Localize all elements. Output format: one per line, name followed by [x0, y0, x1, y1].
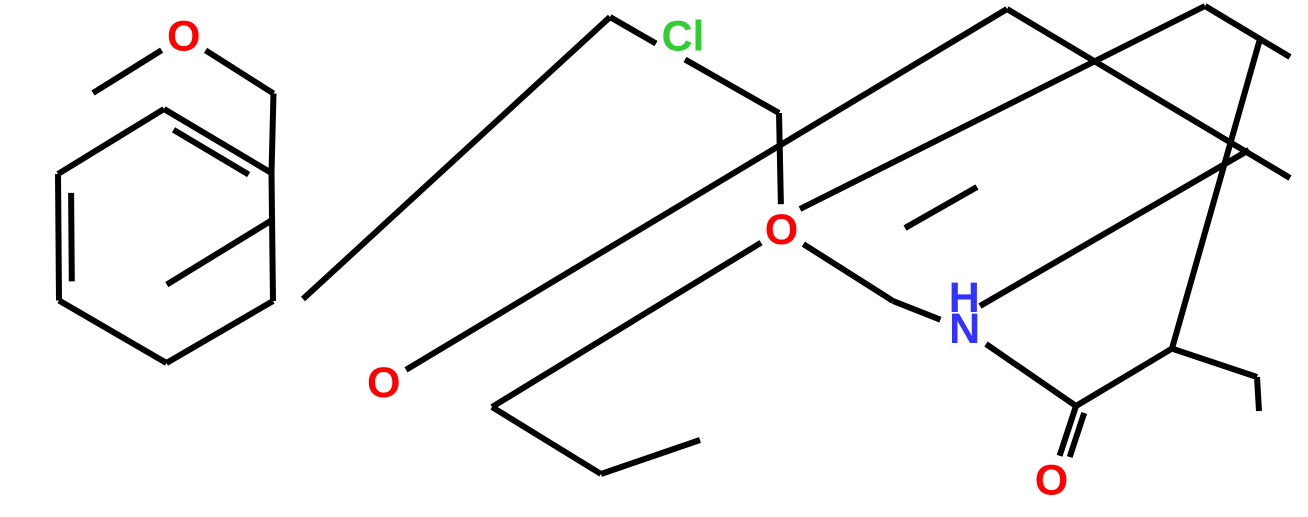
svg-text:O: O: [1035, 457, 1068, 505]
svg-text:O: O: [167, 12, 200, 60]
svg-text:O: O: [765, 206, 798, 254]
svg-text:Cl: Cl: [662, 12, 705, 60]
svg-text:O: O: [367, 359, 400, 407]
svg-text:H: H: [949, 274, 980, 322]
